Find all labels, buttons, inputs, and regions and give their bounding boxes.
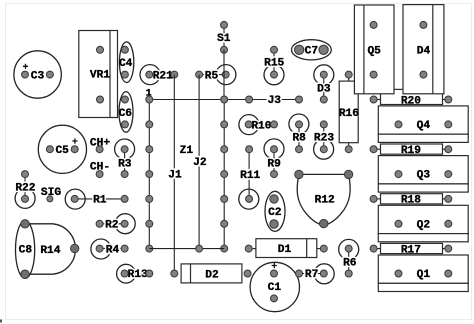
resistor R18	[370, 194, 452, 207]
diode D2	[171, 264, 251, 283]
switch S1	[217, 21, 231, 53]
transistor Q2	[378, 205, 468, 242]
svg-text:R15: R15	[264, 58, 284, 70]
diode D3	[314, 65, 334, 103]
svg-text:R8: R8	[292, 133, 306, 145]
resistor R15	[264, 46, 285, 85]
svg-text:Q5: Q5	[367, 45, 381, 57]
svg-text:R13: R13	[128, 269, 148, 281]
svg-text:S1: S1	[217, 33, 231, 45]
resistor R2	[96, 214, 135, 234]
sip Z1 label	[180, 145, 194, 157]
svg-text:D4: D4	[417, 45, 431, 57]
svg-text:R9: R9	[267, 159, 281, 171]
capacitor C2	[265, 191, 285, 231]
svg-text:R3: R3	[118, 159, 132, 171]
wire bus bottom	[149, 248, 224, 250]
svg-text:R2: R2	[105, 220, 119, 232]
resistor R11	[239, 146, 261, 209]
svg-text:C3: C3	[31, 71, 45, 83]
pad CH-	[90, 162, 110, 178]
svg-text:C6: C6	[119, 108, 133, 120]
wire bus right	[221, 96, 228, 252]
resistor R4	[91, 239, 128, 259]
resistor R6	[339, 239, 359, 277]
capacitor C8	[16, 220, 79, 279]
transistor Q4	[378, 106, 468, 142]
resistor R19	[370, 144, 452, 157]
diode D1	[245, 239, 327, 258]
svg-text:C8: C8	[19, 245, 33, 257]
svg-text:J3: J3	[268, 95, 282, 107]
svg-text:C5: C5	[55, 145, 69, 157]
resistor R1	[65, 189, 128, 209]
svg-text:C4: C4	[119, 58, 133, 70]
resistor R9	[264, 139, 284, 178]
svg-text:D3: D3	[317, 83, 331, 95]
svg-text:R16: R16	[339, 108, 359, 120]
wire bus left	[146, 96, 153, 252]
pad CH+	[90, 137, 110, 152]
svg-text:R1: R1	[93, 195, 107, 207]
svg-text:J1: J1	[168, 170, 182, 182]
svg-text:D2: D2	[205, 269, 219, 281]
svg-text:Q4: Q4	[417, 120, 431, 132]
resistor R14	[25, 224, 75, 274]
svg-text:R23: R23	[314, 133, 334, 145]
svg-text:R21: R21	[153, 70, 173, 82]
resistor R3	[115, 139, 135, 178]
resistor R13	[117, 264, 153, 283]
transistor Q1	[378, 255, 468, 292]
capacitor C3	[14, 51, 61, 98]
svg-text:R11: R11	[240, 170, 260, 182]
pad SIG	[41, 187, 61, 202]
svg-text:R6: R6	[343, 258, 357, 270]
svg-text:C2: C2	[268, 207, 282, 219]
capacitor C4	[119, 42, 134, 83]
svg-text:R10: R10	[251, 120, 271, 132]
svg-text:J2: J2	[193, 157, 207, 169]
resistor R10	[239, 115, 278, 135]
wire S1 to node	[223, 50, 225, 100]
jumper J3	[224, 95, 302, 107]
resistor R5	[196, 65, 236, 85]
corner mark	[0, 320, 2, 323]
svg-text:Q1: Q1	[417, 269, 431, 281]
jumper J1	[168, 75, 182, 274]
resistor R12	[295, 170, 353, 228]
svg-text:R22: R22	[15, 182, 35, 194]
svg-text:R7: R7	[305, 269, 318, 281]
resistor R21	[140, 65, 178, 85]
svg-text:VR1: VR1	[90, 70, 110, 82]
capacitor C5	[38, 125, 86, 173]
transistor Q5	[354, 5, 394, 94]
resistor R22	[15, 171, 36, 209]
svg-text:Q2: Q2	[417, 219, 431, 231]
svg-text:R12: R12	[315, 195, 335, 207]
capacitor C7	[292, 40, 332, 60]
resistor R8	[289, 114, 309, 153]
capacitor C1	[250, 262, 299, 311]
regulator VR1	[79, 31, 118, 118]
diode D4	[403, 5, 444, 94]
svg-text:R14: R14	[40, 245, 60, 257]
resistor R20	[370, 89, 452, 107]
wire bus top	[149, 99, 224, 101]
resistor R17	[370, 243, 452, 256]
capacitor C6	[119, 92, 133, 133]
svg-text:Z1: Z1	[180, 145, 194, 157]
resistor R16	[339, 71, 359, 153]
svg-text:C1: C1	[268, 282, 282, 294]
resistor R23	[314, 121, 335, 159]
svg-text:C7: C7	[305, 46, 318, 58]
transistor Q3	[378, 156, 468, 192]
svg-text:R5: R5	[205, 70, 219, 82]
svg-text:R4: R4	[106, 244, 120, 256]
svg-text:Q3: Q3	[417, 170, 431, 182]
svg-text:D1: D1	[278, 244, 292, 256]
resistor R7	[296, 264, 335, 284]
jumper J2	[193, 75, 207, 253]
node 1 label	[146, 89, 152, 100]
